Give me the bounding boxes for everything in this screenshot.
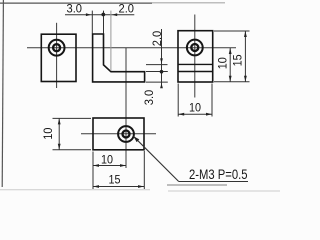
right view line chamfer edge (178, 63, 213, 65)
hole3 outer circle (118, 126, 134, 142)
bottom view left dim 10 line (58, 118, 60, 149)
scan border left (2, 0, 3, 187)
top dim extension line left face (91, 11, 93, 34)
centerline horizontal hole3 (81, 133, 156, 135)
centerline vertical hole1 (56, 23, 58, 88)
leader shelf (179, 181, 248, 183)
svg-text:15: 15 (109, 172, 121, 186)
right view dim 10 line (229, 48, 231, 82)
under right view ext right (211, 84, 213, 117)
right view ext bottom (214, 81, 250, 83)
top dim line (65, 14, 134, 16)
svg-text:2-M3 P=0.5: 2-M3 P=0.5 (189, 167, 248, 182)
under right view dim 10 line (178, 113, 212, 115)
scan border top faint (152, 2, 225, 4)
left view rectangle (41, 34, 76, 81)
leader arrowhead (134, 136, 140, 142)
scan border top (0, 2, 152, 4)
right view dim 15 line (244, 31, 246, 82)
svg-text:2.0: 2.0 (150, 30, 164, 46)
centerline horizontal main (holes 1 and 2) (27, 47, 236, 49)
vertical dim line right of L (161, 29, 163, 86)
side view L outline (93, 34, 145, 82)
scan artifact bottom faint right (168, 190, 280, 192)
hole3 inner circle (123, 131, 130, 138)
svg-text:10: 10 (189, 100, 201, 114)
bottom view ext left below (92, 152, 94, 190)
right view line plate top edge (178, 71, 213, 73)
svg-text:3.0: 3.0 (67, 2, 83, 16)
arrow right at x92.3 (86, 13, 91, 16)
ext line plate top right of L (146, 71, 168, 73)
bottom dim 15 line (93, 186, 144, 188)
bottom dim 10 line (93, 165, 126, 167)
hole2 outer circle (187, 40, 203, 56)
svg-text:10: 10 (215, 57, 229, 69)
bottom view ext right below (143, 151, 145, 189)
right view ext top (214, 30, 250, 32)
top dim extension line chamfer (faint through part) (110, 11, 112, 71)
svg-text:10: 10 (41, 127, 55, 139)
arrow pair at x103.5 (101, 13, 105, 17)
hole1 outer circle (49, 40, 65, 56)
arrow down at y64.6 (160, 58, 163, 63)
arrow left at x110.9 (112, 13, 117, 16)
leader line diagonal (134, 136, 179, 181)
svg-text:15: 15 (231, 54, 245, 66)
arrow up at y82.1 (160, 83, 163, 88)
svg-text:10: 10 (101, 152, 113, 166)
bottom view rectangle (93, 118, 144, 150)
right view rectangle (178, 31, 213, 82)
scan artifact bottom dark segment (167, 184, 227, 186)
bottom view left ext top (53, 117, 92, 119)
centerline vertical hole3 (125, 48, 127, 168)
arrow pair at y71.5 (160, 70, 164, 74)
hole1 inner circle (53, 44, 60, 51)
svg-text:2.0: 2.0 (119, 1, 135, 15)
centerline vertical hole2 (194, 15, 196, 98)
ext line chamfer top right of L (146, 64, 168, 66)
bottom view left ext bottom (53, 149, 92, 151)
scan artifact bottom faint left (0, 189, 150, 191)
under right view ext left (177, 84, 179, 117)
hole2 inner circle (191, 44, 198, 51)
svg-text:3.0: 3.0 (142, 89, 156, 105)
top dim extension line inner face (103, 11, 105, 34)
ext line plate bottom right of L (146, 81, 168, 83)
